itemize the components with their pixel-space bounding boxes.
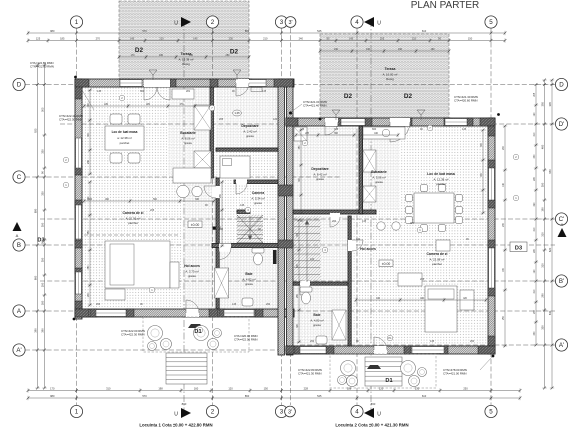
svg-text:145: 145 [130,37,135,41]
window left-house top w1 [120,80,142,87]
svg-text:860: 860 [245,394,250,398]
wall left-house top [75,79,294,87]
door left terrace (double) [144,80,170,88]
svg-text:gresie: gresie [375,180,383,184]
svg-text:205: 205 [219,118,224,121]
svg-text:±0.00: ±0.00 [382,262,391,266]
svg-text:A: 2.42 m²: A: 2.42 m² [243,129,256,133]
svg-text:205: 205 [150,209,155,212]
svg-text:545: 545 [317,29,322,33]
svg-text:A: 4.80 m²: A: 4.80 m² [310,318,323,322]
svg-text:A: 21.91 m²: A: 21.91 m² [126,216,141,220]
left hall floor [183,178,216,309]
left radiator under window [251,88,262,92]
svg-text:230: 230 [229,37,234,41]
svg-text:395: 395 [540,102,544,107]
svg-text:A: 4.82 m²: A: 4.82 m² [242,277,255,281]
window right-house top w1 [341,119,365,126]
svg-text:CTA=422.30 RMN: CTA=422.30 RMN [59,118,82,122]
wall left stair north [237,210,250,213]
terrace drains [149,70,157,75]
wall camera south [234,180,278,184]
section marker U bottom-left [181,408,191,418]
svg-text:gresie: gresie [254,201,262,205]
grid line 4 [356,28,358,405]
svg-text:D2: D2 [230,49,239,56]
wall left camera top [216,148,278,151]
svg-text:Baie: Baie [313,313,320,317]
grid line Dp [60,123,555,125]
svg-text:Terasa: Terasa [181,52,192,56]
left entrance steps [166,353,207,384]
svg-text:C: C [17,174,22,181]
svg-text:gresie: gresie [246,134,254,138]
door right terrace [390,118,410,126]
section marker A left [13,222,22,231]
right entrance steps [365,357,402,386]
svg-text:160: 160 [194,387,199,391]
svg-text:CTA=422.30 RMN: CTA=422.30 RMN [121,333,144,337]
svg-text:260: 260 [310,340,315,343]
svg-text:140: 140 [219,228,224,231]
door camera [236,179,247,185]
svg-text:gresie: gresie [184,141,192,145]
corner survey dots [74,76,77,79]
svg-text:925: 925 [33,128,37,133]
svg-text:120: 120 [310,258,315,261]
svg-text:CTA=422.00 RMN: CTA=422.00 RMN [234,338,257,342]
dim chain right of east wall [503,125,507,348]
right niche shelves [294,127,307,141]
dimension chains top [27,31,507,35]
svg-text:3: 3 [280,19,284,26]
svg-text:145: 145 [462,128,467,131]
svg-text:125: 125 [300,128,305,131]
svg-text:145: 145 [262,90,267,93]
svg-text:160: 160 [40,300,44,305]
svg-text:B': B' [559,278,564,285]
svg-text:P1: P1 [388,336,392,340]
svg-text:CTA=420.60 RMN: CTA=420.60 RMN [454,99,477,103]
svg-text:505: 505 [40,107,44,112]
left storage+camera floor [216,87,278,149]
D3 label right [510,242,527,252]
svg-text:D1: D1 [194,329,201,335]
svg-text:A: A [16,233,19,238]
svg-text:300: 300 [40,257,44,262]
left bath floor [219,247,278,309]
section line U left [183,20,185,412]
dining table right + chairs [414,193,454,223]
svg-text:145: 145 [349,37,354,41]
svg-text:980: 980 [50,394,55,398]
door left storage [236,79,249,87]
detail markers [119,95,125,101]
right bath floor [293,285,348,346]
svg-text:300: 300 [40,222,44,227]
grid line 3b [290,28,292,405]
door right entrance [374,346,387,354]
svg-text:145: 145 [232,303,237,306]
svg-text:145: 145 [240,204,245,207]
svg-text:1: 1 [75,19,79,26]
svg-text:570: 570 [142,394,147,398]
right hall floor [321,216,351,285]
svg-text:A: 16.00 m²: A: 16.00 m² [383,72,398,76]
sofa living right [425,286,457,332]
door right living [348,240,356,251]
svg-text:D2: D2 [404,93,413,100]
grid bubbles bottom [70,405,82,417]
grid line Ap left [25,349,300,351]
svg-text:120: 120 [228,387,233,391]
wall party leaf east (grid 3b) [287,79,294,355]
svg-text:170: 170 [131,54,136,57]
svg-text:3': 3' [288,409,292,415]
svg-text:D1: D1 [385,378,392,384]
dimension chains right [550,79,554,390]
svg-text:228: 228 [304,387,309,391]
svg-text:260: 260 [96,303,101,306]
svg-text:A': A' [16,347,21,354]
svg-text:660: 660 [372,128,377,131]
svg-text:150: 150 [468,37,473,41]
wall left kitchen/storage divider [210,87,213,178]
kitchen counter left [194,105,211,130]
stairs right treads [294,219,320,221]
svg-text:205: 205 [380,37,385,41]
under-terrace dims right [319,49,451,53]
left canopy mark [188,324,203,328]
svg-text:parchet: parchet [128,221,138,225]
svg-text:188: 188 [347,387,352,391]
dining table left + chairs [105,126,144,150]
grid line 2 [212,28,214,405]
svg-text:190: 190 [540,207,544,212]
svg-text:860: 860 [182,402,187,406]
svg-text:Bucatarie: Bucatarie [371,170,387,174]
stairs left treads [237,217,263,219]
svg-text:145: 145 [430,340,435,343]
svg-text:Loc de luat masa: Loc de luat masa [427,172,455,176]
svg-text:260: 260 [470,340,475,343]
grid line B [25,244,555,246]
svg-text:A: 15.38 m²: A: 15.38 m² [179,57,194,61]
svg-text:3: 3 [280,409,284,416]
svg-text:A: 12.38 m²: A: 12.38 m² [434,177,449,181]
left entrance bushes [148,326,163,341]
svg-text:190: 190 [366,48,371,51]
grid line D [25,84,555,86]
svg-text:Resig: Resig [182,62,190,66]
svg-text:B: B [17,242,21,249]
under-terrace dims left [118,55,251,59]
svg-text:660: 660 [33,275,37,280]
left house floor [82,87,278,309]
svg-text:250: 250 [463,387,468,391]
svg-text:120: 120 [379,387,384,391]
svg-text:Depozitare: Depozitare [311,167,328,171]
door left hall [212,186,220,198]
svg-text:190: 190 [334,48,339,51]
window right-house east w2 [489,248,495,288]
grid line 1 [76,28,78,405]
svg-text:2: 2 [211,19,215,26]
svg-text:±0.00: ±0.00 [191,223,200,227]
svg-text:A: 8.42 m²: A: 8.42 m² [313,172,326,176]
svg-text:205: 205 [420,278,425,281]
svg-text:380: 380 [410,222,415,225]
svg-text:a: 12.38 m²: a: 12.38 m² [117,136,132,140]
svg-text:Locuinta 2 Cota ±0.00 + 421.30: Locuinta 2 Cota ±0.00 + 421.30 RMN [335,423,408,428]
svg-text:5: 5 [489,19,493,26]
svg-text:parchet: parchet [120,141,130,145]
svg-text:270: 270 [96,37,101,41]
svg-text:Hol acces: Hol acces [360,247,376,251]
svg-text:Camera de zi: Camera de zi [123,211,144,215]
svg-text:Loc de luat masa: Loc de luat masa [112,130,138,134]
svg-text:120: 120 [273,118,278,121]
svg-text:A': A' [559,342,564,349]
grid bubbles right [555,78,567,90]
svg-text:125: 125 [36,37,41,41]
left porch dashed [143,317,249,352]
door right depozitare [325,118,338,126]
wall left bath north [212,244,293,248]
svg-text:145: 145 [362,220,367,223]
section marker U top-left [181,17,191,27]
svg-text:310: 310 [540,232,544,237]
wall pier patches [75,79,89,87]
svg-text:190: 190 [398,48,403,51]
svg-text:300: 300 [540,182,544,187]
small table left living [105,289,125,300]
svg-text:Terasa: Terasa [385,67,396,71]
wall right interior [293,210,376,214]
wall right bath north [293,282,348,285]
svg-text:CTA=421.00 RMN: CTA=421.00 RMN [443,372,466,376]
svg-text:460: 460 [540,144,544,149]
svg-text:240: 240 [299,37,304,41]
room labels [112,130,138,145]
svg-text:A: 22.08 m²: A: 22.08 m² [430,257,445,261]
svg-text:parchet: parchet [432,262,442,266]
right stairs hatch [293,216,321,282]
window left-house bottom w1 [96,310,126,317]
grid line Ap right [300,344,555,346]
wall right-house east [488,118,495,354]
svg-text:3': 3' [288,20,292,26]
svg-text:660: 660 [140,90,145,93]
right kitchen floor [362,126,400,210]
svg-text:Bucatarie: Bucatarie [180,131,196,135]
window right-house east w1 [489,168,495,200]
svg-text:U: U [174,21,178,27]
svg-text:185: 185 [60,37,65,41]
svg-text:330: 330 [40,149,44,154]
window left-house west w1 [76,138,82,168]
svg-text:860: 860 [245,29,250,33]
level marker left [188,221,202,228]
kitchen top counter right [363,127,405,139]
svg-text:640: 640 [548,310,552,315]
svg-text:D3: D3 [37,238,44,244]
window left-house top w2 [248,80,266,87]
svg-text:Resig: Resig [386,77,394,81]
svg-text:350: 350 [540,325,544,330]
svg-text:570: 570 [142,29,147,33]
svg-text:PLAN PARTER: PLAN PARTER [411,0,480,11]
sofa/bed living left [105,241,170,288]
bath fixtures left [252,248,264,253]
dimension chains left [35,64,39,390]
svg-text:860: 860 [371,402,376,406]
svg-text:145: 145 [193,37,198,41]
svg-text:200: 200 [40,282,44,287]
svg-text:210: 210 [263,37,268,41]
svg-text:parchet: parchet [436,182,446,186]
svg-text:230: 230 [415,387,420,391]
right canopy mark [367,365,381,369]
svg-text:190: 190 [431,48,436,51]
small table right living [398,273,422,286]
svg-text:545: 545 [317,394,322,398]
svg-text:CTA=421.40 RMN: CTA=421.40 RMN [303,104,326,108]
door right hall [330,213,340,221]
bed camera left [220,156,250,178]
svg-text:620: 620 [548,247,552,252]
window right-house bottom w1 [412,347,444,354]
svg-text:Hol acces: Hol acces [184,264,200,268]
left kitchen floor [168,87,210,175]
svg-text:A: A [561,222,564,227]
wall left-house bottom [75,309,294,317]
svg-text:170: 170 [50,387,55,391]
svg-text:CTA=421.30 RMN: CTA=421.30 RMN [298,372,321,376]
window left-house west w3 [76,272,82,294]
wall party leaf west (grid 3) [278,79,285,355]
terrace labels [179,52,194,66]
svg-text:gresie: gresie [316,177,324,181]
svg-text:U: U [174,412,178,418]
kitchen top counter left [172,89,194,99]
window left-house bottom w2 [224,310,254,317]
svg-text:198: 198 [158,387,163,391]
svg-text:281: 281 [186,90,191,93]
svg-text:D2: D2 [135,47,144,54]
svg-text:5: 5 [489,409,493,416]
wall right kitchen divider (grid 4) [359,126,363,214]
wall right living west [348,216,351,346]
svg-text:145: 145 [97,90,102,93]
svg-text:D3: D3 [515,246,522,252]
svg-text:150: 150 [264,387,269,391]
svg-text:Depozitare: Depozitare [241,124,258,128]
svg-text:2: 2 [211,409,215,416]
grid line Bp [40,280,555,282]
svg-text:1.45: 1.45 [234,111,240,115]
section marker U bottom-right [364,408,374,418]
grid line 3 [281,28,283,405]
grid line Cp [40,218,555,220]
svg-text:1: 1 [75,409,79,416]
svg-text:A: 5.06 m²: A: 5.06 m² [372,175,385,179]
CTA/CTN elevation notes [59,114,83,122]
svg-text:D: D [17,82,22,89]
right house floor [293,126,488,346]
section line U right [370,20,372,412]
svg-text:D2: D2 [344,93,353,100]
svg-text:390: 390 [40,328,44,333]
window right-house top w2 [445,119,467,126]
svg-text:U: U [377,21,381,27]
svg-text:310: 310 [540,263,544,268]
svg-text:A: 8.06 m²: A: 8.06 m² [181,136,194,140]
svg-text:390: 390 [33,328,37,333]
svg-text:395: 395 [548,102,552,107]
wall left hall west [216,178,219,309]
column dot [213,227,216,230]
svg-text:D: D [559,82,564,89]
door left bath [219,244,231,252]
section marker U top-right [364,17,374,27]
svg-text:4: 4 [355,409,359,416]
svg-text:Camera: Camera [252,191,265,195]
svg-text:260: 260 [332,220,337,223]
terrace left (Terasa, hatched) [119,1,249,79]
svg-text:A: 5.34 m²: A: 5.34 m² [251,196,264,200]
right storage floor [293,126,359,210]
svg-text:330: 330 [40,191,44,196]
wall left-house west [75,79,82,319]
svg-text:gresie: gresie [313,323,321,327]
svg-text:610: 610 [422,29,427,33]
right porch dashed [330,354,436,388]
svg-text:CTN=422.30 RMN: CTN=422.30 RMN [30,65,54,69]
svg-text:310: 310 [106,387,111,391]
svg-text:980: 980 [50,29,55,33]
section marker A right [558,228,567,237]
svg-text:290: 290 [540,293,544,298]
wall right-house bottom [286,346,495,354]
level marker right [379,260,393,267]
svg-text:345: 345 [334,128,339,131]
svg-text:260: 260 [266,303,271,306]
svg-text:Camera de zi: Camera de zi [427,252,448,256]
svg-text:gresie: gresie [245,282,253,286]
svg-text:U: U [377,412,381,418]
window right-house bottom w2 [300,347,326,354]
svg-text:D': D' [559,121,565,128]
grid line C [25,176,340,178]
svg-text:680: 680 [33,208,37,213]
wall right-house top [286,118,495,126]
svg-text:4: 4 [355,19,359,26]
door left entrance [186,309,199,317]
dimension chains bottom [27,388,522,392]
svg-text:Baie: Baie [245,272,252,276]
svg-text:gresie: gresie [188,274,196,278]
kitchen counter right [363,150,376,172]
svg-text:210: 210 [412,37,417,41]
right entrance bushes [341,361,356,376]
grid line A [25,310,555,312]
window left-house west w2 [76,205,82,239]
svg-text:Locuinta 1 Cota ±0.00 + 422.80: Locuinta 1 Cota ±0.00 + 422.80 RMN [139,423,212,428]
grid bubbles top [70,16,82,28]
svg-text:A: 3.70 m²: A: 3.70 m² [185,269,198,273]
svg-text:140: 140 [356,238,361,241]
